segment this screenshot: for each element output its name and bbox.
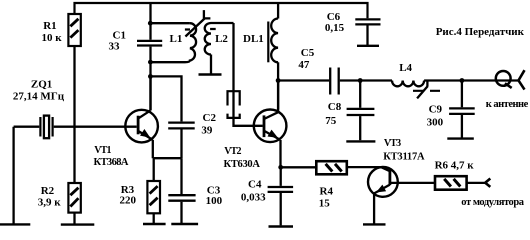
svg-text:КТ3117А: КТ3117А	[383, 152, 425, 163]
svg-text:ZQ1: ZQ1	[31, 78, 52, 90]
svg-text:R2: R2	[41, 185, 55, 197]
svg-text:C9: C9	[429, 104, 443, 116]
svg-text:75: 75	[325, 115, 337, 127]
svg-text:0,15: 0,15	[325, 22, 345, 34]
svg-text:0,033: 0,033	[241, 192, 266, 204]
svg-text:R1: R1	[43, 20, 56, 32]
svg-text:КТ368А: КТ368А	[94, 157, 129, 168]
svg-text:C2: C2	[203, 112, 217, 124]
svg-text:39: 39	[201, 124, 213, 136]
svg-text:33: 33	[109, 41, 121, 53]
svg-text:DL1: DL1	[243, 33, 264, 45]
svg-text:27,14 МГц: 27,14 МГц	[13, 90, 65, 102]
svg-text:R6 4,7 к: R6 4,7 к	[435, 159, 475, 171]
svg-text:L1: L1	[170, 33, 183, 45]
svg-text:15: 15	[319, 198, 331, 210]
svg-text:КТ630А: КТ630А	[224, 159, 261, 170]
svg-text:к антенне: к антенне	[486, 99, 529, 110]
svg-text:VT1: VT1	[94, 145, 111, 156]
svg-text:47: 47	[298, 59, 310, 71]
svg-text:300: 300	[427, 117, 444, 129]
svg-text:10 к: 10 к	[42, 32, 63, 44]
svg-text:L4: L4	[399, 62, 412, 74]
svg-text:C8: C8	[328, 101, 342, 113]
svg-text:Рис.4 Передатчик: Рис.4 Передатчик	[436, 26, 525, 38]
svg-text:C5: C5	[301, 47, 315, 59]
svg-text:R4: R4	[320, 185, 334, 197]
svg-text:100: 100	[206, 195, 223, 207]
svg-text:VT3: VT3	[384, 138, 401, 149]
svg-text:L2: L2	[215, 33, 228, 45]
svg-text:от модулятора: от модулятора	[461, 197, 524, 208]
svg-text:C4: C4	[248, 179, 262, 191]
svg-text:3,9 к: 3,9 к	[38, 197, 62, 209]
svg-text:VT2: VT2	[224, 146, 241, 157]
svg-text:220: 220	[120, 195, 137, 207]
